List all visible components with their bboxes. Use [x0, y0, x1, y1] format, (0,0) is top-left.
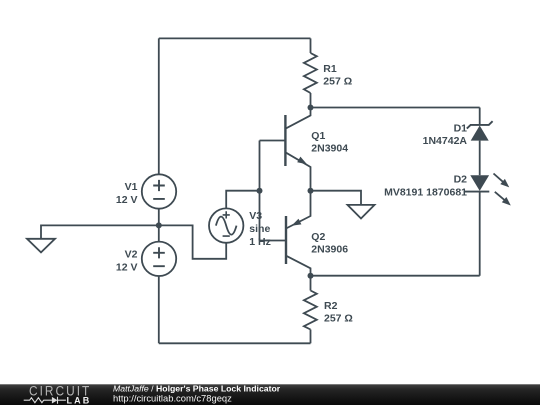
svg-text:sine: sine — [249, 223, 270, 235]
svg-text:257 Ω: 257 Ω — [324, 313, 353, 325]
wire Q1 base — [260, 140, 286, 142]
svg-text:D2: D2 — [454, 174, 468, 186]
wire to left ground — [41, 225, 159, 238]
voltage source V1 — [142, 174, 176, 208]
svg-text:1N4742A: 1N4742A — [423, 135, 468, 147]
svg-text:Q2: Q2 — [311, 231, 325, 243]
wire base column — [259, 141, 261, 241]
svg-text:Q1: Q1 — [311, 130, 325, 142]
wire lower rail (Q2/R2 node to D2 bottom) — [311, 275, 480, 277]
svg-text:V2: V2 — [125, 248, 138, 260]
ground (left) — [27, 239, 55, 253]
wire V3 plus to base node — [226, 191, 259, 209]
wire V1 to V2 — [158, 209, 160, 242]
footer bar — [0, 384, 540, 405]
resistor R2 — [304, 276, 317, 344]
node R1-Q1-D1 junction — [308, 105, 314, 111]
zener diode D1 — [467, 108, 493, 176]
wire left rail top (to V1) — [158, 38, 160, 174]
svg-text:12 V: 12 V — [116, 261, 138, 273]
svg-text:257 Ω: 257 Ω — [323, 76, 352, 88]
footer CircuitLab logo — [24, 383, 92, 405]
wire left rail bottom — [158, 276, 160, 343]
svg-text:D1: D1 — [454, 123, 468, 135]
voltage source V2 — [142, 242, 176, 276]
svg-text:LAB: LAB — [67, 395, 92, 405]
LED D2 — [465, 174, 511, 276]
svg-text:1 Hz: 1 Hz — [249, 236, 271, 248]
resistor R1 — [304, 38, 317, 107]
wire mid rail (R1 bottom to D1) — [311, 107, 480, 109]
svg-text:2N3906: 2N3906 — [311, 244, 348, 256]
svg-text:http://circuitlab.com/c78geqz: http://circuitlab.com/c78geqz — [113, 392, 232, 403]
svg-text:R1: R1 — [323, 63, 337, 75]
node V1-V2-gnd-V3 junction — [156, 222, 162, 228]
ground (right) — [348, 205, 375, 219]
svg-text:V3: V3 — [249, 210, 262, 222]
wire emitters to right ground — [311, 191, 362, 205]
node R2-Q2-D2 junction — [308, 273, 314, 279]
transistor Q1 — [285, 108, 310, 191]
voltage source V3 — [209, 208, 243, 242]
wire top rail — [159, 37, 311, 39]
wire Q2 base — [260, 240, 287, 242]
svg-text:V1: V1 — [125, 181, 138, 193]
svg-text:R2: R2 — [324, 300, 338, 312]
svg-text:12 V: 12 V — [116, 194, 138, 206]
node emitter junction — [308, 188, 314, 194]
svg-text:MV8191 1870681: MV8191 1870681 — [384, 187, 467, 199]
wire V2/V1 node to V3 minus — [159, 225, 226, 258]
svg-text:2N3904: 2N3904 — [311, 143, 348, 155]
node base junction — [257, 188, 263, 194]
wire bottom rail — [159, 342, 311, 344]
transistor Q2 — [286, 191, 311, 276]
